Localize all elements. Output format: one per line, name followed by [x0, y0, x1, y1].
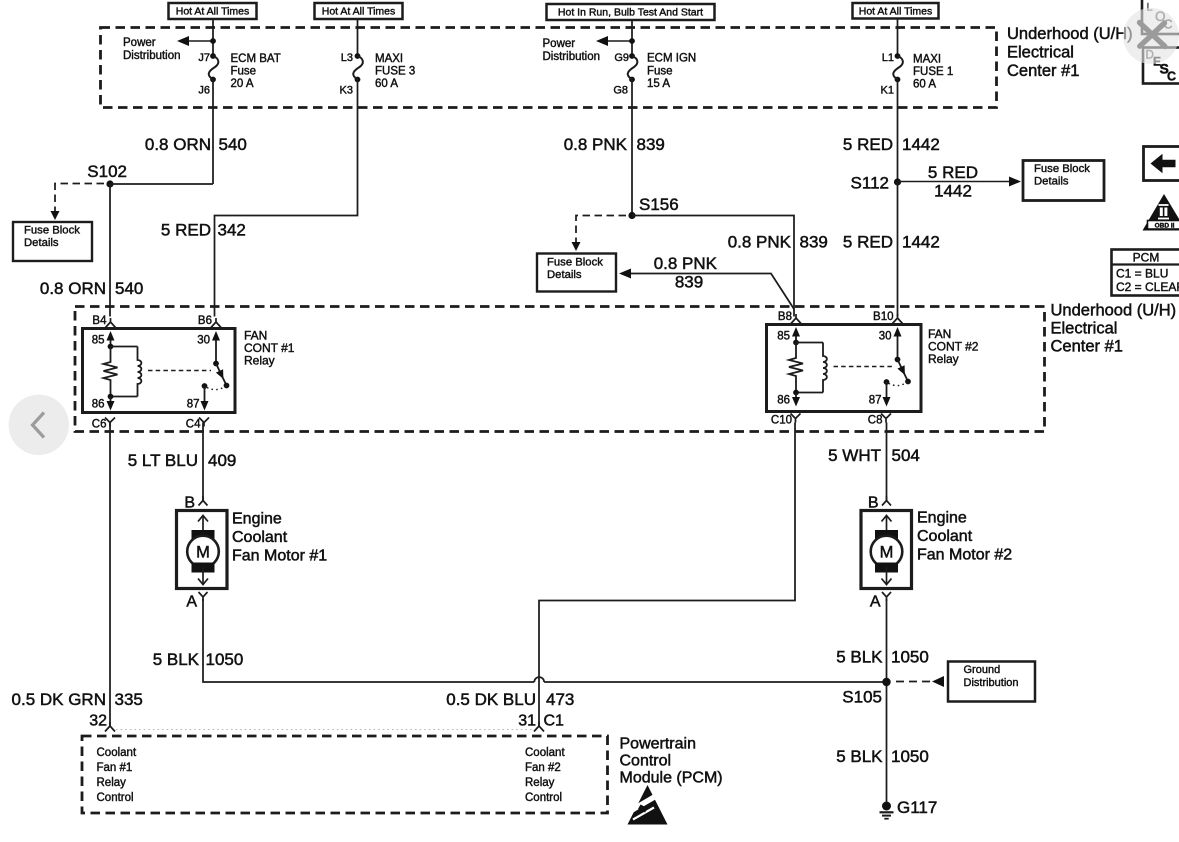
svg-text:86: 86: [777, 395, 790, 407]
svg-text:Relay: Relay: [244, 354, 275, 368]
svg-text:335: 335: [115, 690, 143, 709]
svg-text:839: 839: [637, 135, 665, 154]
svg-text:Powertrain: Powertrain: [620, 736, 696, 753]
label box Hot At All Times (ECM BAT): [169, 3, 257, 19]
svg-text:Fuse Block: Fuse Block: [1034, 163, 1090, 175]
relay box FAN CONT #2: [767, 325, 922, 412]
svg-text:5 RED: 5 RED: [928, 163, 978, 182]
svg-text:60 A: 60 A: [375, 78, 398, 90]
ESD sensitive symbol: [628, 785, 668, 825]
svg-text:504: 504: [892, 446, 920, 465]
svg-text:B8: B8: [778, 311, 792, 323]
svg-text:C1: C1: [544, 713, 565, 730]
dashed branch S102 to fuse block details: [55, 184, 104, 212]
back navigation chevron: [9, 395, 69, 455]
relay pin 86 arrow: [795, 393, 797, 400]
svg-text:473: 473: [546, 690, 574, 709]
node S156: [628, 212, 635, 219]
label box Hot At All Times (MAXI FUSE 3): [315, 3, 403, 19]
box Fuse Block Details (right): [1023, 161, 1104, 201]
relay switch pin 30: [897, 334, 899, 360]
wire MAXI FUSE 1 down to S112: [897, 80, 899, 183]
svg-text:Fan #1: Fan #1: [97, 762, 133, 774]
svg-text:540: 540: [115, 279, 143, 298]
svg-text:C8: C8: [868, 415, 883, 427]
connector line C1 (dotted): [116, 729, 533, 731]
svg-text:C4: C4: [186, 419, 201, 431]
ground G117: [882, 802, 891, 811]
back arrow icon box: [1144, 147, 1179, 181]
wire ECM IGN fuse down to S156: [631, 80, 633, 216]
svg-text:0.8 PNK: 0.8 PNK: [728, 233, 792, 252]
svg-text:M: M: [196, 544, 210, 562]
svg-text:Underhood (U/H): Underhood (U/H): [1051, 302, 1177, 320]
dashed branch S105 to ground distribution: [896, 681, 930, 683]
node S112: [894, 178, 901, 185]
fuse element MAXI FUSE 1: [895, 53, 901, 59]
svg-text:K3: K3: [340, 85, 353, 97]
wire S156 right then down to B8: [632, 216, 794, 317]
DESC button box: [1143, 48, 1179, 84]
wire from Hot In Run box to ECM IGN fuse: [631, 19, 633, 56]
LOC button box: [1142, 0, 1179, 34]
svg-text:B6: B6: [198, 315, 212, 327]
svg-text:87: 87: [187, 399, 200, 411]
dashed box Underhood Electrical Center #1 (relays): [75, 307, 1045, 432]
crossover hop of ground wire over DK BLU: [534, 677, 544, 682]
svg-text:Coolant: Coolant: [917, 528, 973, 545]
svg-text:S112: S112: [851, 174, 889, 193]
fuse element ECM BAT: [210, 53, 216, 59]
wire S112 down to B10: [897, 182, 899, 317]
relay switch pin 87: [202, 383, 208, 389]
box Fuse Block Details (middle): [537, 254, 616, 292]
svg-text:J7: J7: [198, 52, 210, 64]
svg-text:5 BLK: 5 BLK: [153, 650, 200, 669]
wire motor2 A down to S105 and G117: [886, 599, 888, 803]
svg-text:0.5 DK BLU: 0.5 DK BLU: [446, 690, 536, 709]
svg-text:MAXI: MAXI: [375, 53, 403, 65]
svg-text:C6: C6: [92, 419, 107, 431]
svg-text:FUSE 3: FUSE 3: [375, 66, 415, 78]
close button overlay circle: [1123, 8, 1179, 64]
svg-text:1442: 1442: [902, 233, 940, 252]
svg-text:1050: 1050: [891, 747, 929, 766]
svg-text:OBD II: OBD II: [1155, 222, 1175, 229]
motor Engine Coolant Fan Motor #1: [177, 511, 228, 589]
fuse element MAXI FUSE 3: [355, 53, 361, 59]
svg-text:5 BLK: 5 BLK: [836, 747, 883, 766]
svg-text:5 RED: 5 RED: [843, 233, 893, 252]
svg-text:Engine: Engine: [917, 510, 967, 527]
svg-text:Power: Power: [543, 38, 576, 50]
label box Hot At All Times (MAXI FUSE 1): [853, 3, 939, 19]
svg-text:85: 85: [92, 335, 105, 347]
svg-text:ECM IGN: ECM IGN: [647, 53, 696, 65]
dashed branch S156 to fuse block details: [576, 216, 626, 243]
svg-text:839: 839: [675, 273, 703, 292]
wire C8 down to motor 2: [886, 423, 888, 502]
svg-text:60 A: 60 A: [913, 79, 936, 91]
svg-text:Power: Power: [123, 37, 156, 49]
svg-text:15 A: 15 A: [647, 78, 670, 90]
svg-text:FUSE 1: FUSE 1: [913, 66, 953, 78]
svg-text:A: A: [870, 594, 881, 611]
svg-text:Coolant: Coolant: [97, 747, 137, 759]
svg-text:0.8 PNK: 0.8 PNK: [564, 135, 628, 154]
svg-text:1442: 1442: [902, 135, 940, 154]
close button X: [1140, 23, 1166, 47]
svg-text:B10: B10: [873, 311, 893, 323]
svg-text:Engine: Engine: [232, 511, 282, 528]
relay switch pin 87: [884, 379, 890, 385]
svg-text:Relay: Relay: [928, 352, 959, 366]
svg-text:Fan Motor #2: Fan Motor #2: [917, 547, 1012, 564]
svg-text:87: 87: [869, 395, 882, 407]
wire C10 down left and down to PCM pin 31: [539, 423, 795, 727]
svg-text:A: A: [186, 594, 197, 611]
svg-text:342: 342: [218, 221, 246, 240]
svg-text:Distribution: Distribution: [123, 50, 181, 62]
svg-text:M: M: [880, 544, 894, 562]
svg-text:30: 30: [879, 331, 892, 343]
svg-text:G8: G8: [613, 85, 628, 97]
svg-text:31: 31: [518, 713, 536, 730]
svg-text:5 BLK: 5 BLK: [836, 648, 883, 667]
svg-text:0.8 ORN: 0.8 ORN: [145, 135, 211, 154]
svg-text:540: 540: [219, 135, 247, 154]
svg-text:S102: S102: [87, 162, 127, 181]
svg-text:20 A: 20 A: [231, 78, 254, 90]
wire C6 down to PCM pin 32: [109, 423, 111, 727]
svg-text:Distribution: Distribution: [543, 51, 601, 63]
svg-text:Underhood (U/H): Underhood (U/H): [1007, 25, 1133, 43]
svg-text:Electrical: Electrical: [1051, 320, 1118, 338]
svg-text:0.8 PNK: 0.8 PNK: [654, 254, 718, 273]
svg-text:Fan #2: Fan #2: [525, 762, 561, 774]
relay pin 86 arrow: [110, 397, 112, 404]
svg-text:Details: Details: [24, 237, 59, 249]
branch B8 to fuse block details with arrow: [628, 274, 794, 310]
wire fuse1 corner into S102: [110, 183, 213, 185]
svg-text:0.8 ORN: 0.8 ORN: [40, 279, 106, 298]
svg-text:32: 32: [89, 713, 107, 730]
relay coil + resistor: [793, 340, 799, 346]
svg-text:Center #1: Center #1: [1007, 62, 1079, 80]
wire S102 down to B4: [109, 184, 111, 317]
svg-text:Center #1: Center #1: [1051, 338, 1123, 356]
wire MAXI FUSE 3 down then left then down to B6: [215, 80, 358, 317]
svg-text:Module (PCM): Module (PCM): [620, 770, 723, 787]
svg-text:Coolant: Coolant: [525, 747, 565, 759]
relay coil + resistor: [108, 344, 114, 350]
svg-text:Control: Control: [620, 753, 672, 770]
svg-text:5 WHT: 5 WHT: [828, 446, 881, 465]
label box Hot In Run Bulb Test And Start: [547, 4, 715, 20]
wire ECM BAT fuse down to S102 corner: [212, 80, 214, 185]
svg-text:L1: L1: [882, 52, 894, 64]
svg-text:C: C: [1167, 69, 1176, 83]
svg-text:S105: S105: [842, 688, 882, 707]
relay pin 85 arrow: [795, 334, 797, 343]
PCM connector legend table: [1112, 250, 1179, 296]
relay dashed actuator link: [148, 370, 211, 372]
svg-text:Coolant: Coolant: [232, 529, 288, 546]
power distribution arrow (ECM IGN): [605, 40, 632, 42]
OBD II triangle icon: [1143, 194, 1179, 231]
wire C4 down to motor 1: [202, 423, 204, 502]
relay box FAN CONT #1: [83, 329, 236, 413]
svg-text:Distribution: Distribution: [964, 677, 1019, 689]
svg-text:Hot At All Times: Hot At All Times: [859, 5, 933, 17]
svg-text:Relay: Relay: [525, 777, 555, 789]
svg-text:Hot At All Times: Hot At All Times: [176, 6, 250, 18]
svg-text:5 RED: 5 RED: [843, 135, 893, 154]
relay dashed actuator link: [834, 366, 893, 368]
svg-text:Details: Details: [547, 269, 582, 281]
svg-text:0.5 DK GRN: 0.5 DK GRN: [12, 690, 106, 709]
relay pin 85 arrow: [110, 338, 112, 347]
svg-text:5 LT BLU: 5 LT BLU: [128, 451, 198, 470]
svg-text:1050: 1050: [206, 650, 244, 669]
dashed box Powertrain Control Module: [82, 736, 608, 813]
svg-text:1442: 1442: [934, 182, 972, 201]
wire motor1 A down and right to S105: [203, 599, 534, 682]
relay switch pin 30: [215, 338, 217, 364]
arrow S112 to fuse block details right: [898, 181, 1013, 183]
svg-text:1050: 1050: [891, 648, 929, 667]
motor Engine Coolant Fan Motor #2: [861, 511, 912, 589]
svg-text:839: 839: [800, 233, 828, 252]
svg-text:Electrical: Electrical: [1007, 44, 1074, 62]
power distribution arrow (ECM BAT): [186, 40, 213, 42]
wire from Hot At All Times to MAXI FUSE 3: [357, 19, 359, 56]
svg-text:PCM: PCM: [1133, 251, 1160, 265]
svg-text:G117: G117: [897, 798, 937, 817]
svg-text:Relay: Relay: [97, 777, 127, 789]
svg-text:Fan Motor #1: Fan Motor #1: [232, 548, 327, 565]
svg-text:Hot At All Times: Hot At All Times: [322, 6, 396, 18]
wire from Hot At All Times to MAXI FUSE 1: [897, 19, 899, 56]
svg-text:C1 = BLU: C1 = BLU: [1116, 267, 1168, 281]
node S105: [882, 678, 890, 686]
dashed box Underhood Electrical Center #1 (top): [101, 28, 997, 108]
svg-text:Fuse Block: Fuse Block: [24, 225, 80, 237]
svg-text:Fuse: Fuse: [231, 66, 257, 78]
svg-text:G9: G9: [614, 52, 629, 64]
svg-text:5 RED: 5 RED: [161, 221, 211, 240]
svg-text:L3: L3: [341, 52, 353, 64]
svg-text:K1: K1: [881, 85, 894, 97]
svg-text:ECM BAT: ECM BAT: [231, 53, 281, 65]
svg-text:Fuse: Fuse: [647, 66, 673, 78]
svg-text:Hot In Run, Bulb Test And Star: Hot In Run, Bulb Test And Start: [558, 7, 703, 19]
svg-text:85: 85: [777, 331, 790, 343]
svg-text:C2 = CLEAR: C2 = CLEAR: [1116, 280, 1179, 294]
box Ground Distribution: [948, 662, 1035, 702]
svg-text:Control: Control: [97, 792, 134, 804]
svg-text:Fuse Block: Fuse Block: [547, 257, 603, 269]
fuse element ECM IGN: [629, 53, 635, 59]
svg-text:Control: Control: [525, 792, 562, 804]
svg-text:409: 409: [208, 451, 236, 470]
svg-text:86: 86: [92, 399, 105, 411]
box Fuse Block Details (left): [13, 222, 92, 261]
svg-text:S156: S156: [639, 195, 679, 214]
svg-text:B4: B4: [92, 315, 107, 327]
svg-text:Details: Details: [1034, 176, 1069, 188]
svg-text:C10: C10: [771, 415, 792, 427]
svg-text:30: 30: [197, 335, 210, 347]
wire from Hot At All Times to ECM BAT fuse: [212, 19, 214, 56]
svg-text:J6: J6: [198, 85, 210, 97]
svg-text:MAXI: MAXI: [913, 54, 941, 66]
svg-text:Ground: Ground: [964, 664, 1001, 676]
